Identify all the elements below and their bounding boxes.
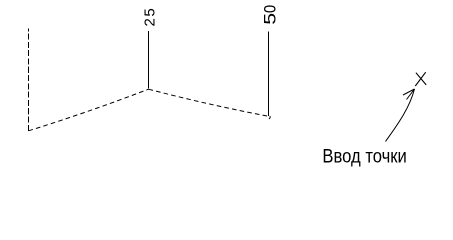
wire: dashed diagonal from 25-line bottom to 50-line bottom (149, 89, 269, 116)
endpoint tick at 50-line bottom (269, 116, 270, 119)
node A: vertical height line labelled 25 (148, 31, 150, 89)
arrowhead barbs (403, 89, 415, 100)
wire: left dashed vertical line (28, 28, 30, 132)
wire: dashed diagonal from left line bottom to node at 25-line (29, 89, 149, 131)
label 50 (rotated) (261, 5, 279, 25)
node X: cursor cross mark (415, 72, 426, 86)
svg-text:5: 5 (141, 8, 158, 16)
svg-text:0: 0 (262, 5, 280, 13)
svg-text:2: 2 (141, 18, 158, 26)
wire: curved annotation arrow shaft (386, 89, 415, 142)
node B: vertical height line labelled 50 (268, 32, 270, 117)
svg-text:5: 5 (261, 13, 279, 25)
label 25 (rotated) (141, 8, 158, 26)
svg-text:Ввод точки: Ввод точки (322, 146, 406, 167)
